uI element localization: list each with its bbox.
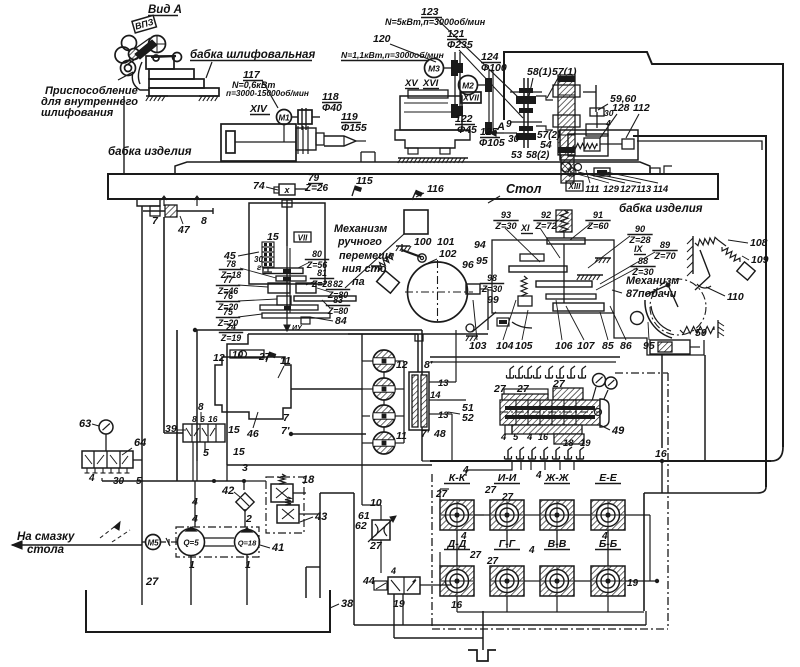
leader line to attachment <box>118 72 133 80</box>
leader to grinding head <box>206 62 212 78</box>
svg-text:100: 100 <box>414 236 432 248</box>
svg-text:4: 4 <box>460 531 467 542</box>
svg-text:М5: М5 <box>147 539 159 548</box>
svg-text:XI: XI <box>520 223 530 233</box>
valve T row above shaft <box>509 369 511 378</box>
crank arm <box>645 285 668 295</box>
block 128 112 housing <box>560 130 638 160</box>
spindle shaft I <box>523 78 525 148</box>
lube dashed arrows <box>100 524 118 538</box>
svg-text:27: 27 <box>145 576 159 588</box>
svg-text:9: 9 <box>506 119 512 130</box>
wire top attachment to table <box>123 96 125 174</box>
pipe y625 under grid <box>354 624 646 626</box>
cam big circle <box>408 262 468 322</box>
svg-text:127: 127 <box>620 184 637 195</box>
motor M3 <box>425 59 444 78</box>
svg-text:Z=70: Z=70 <box>653 251 676 261</box>
pendulum lever <box>402 250 421 257</box>
svg-text:4: 4 <box>526 432 533 443</box>
leader line from M1 down <box>283 125 285 142</box>
pump coupling shaft <box>204 537 234 539</box>
svg-text:48: 48 <box>433 428 446 440</box>
svg-text:96: 96 <box>462 259 474 271</box>
svg-text:30: 30 <box>508 134 520 145</box>
pawl mechanism below <box>472 312 496 332</box>
pipe to pump Q5 <box>194 481 196 527</box>
svg-text:52: 52 <box>462 412 474 424</box>
small parts under feed <box>497 318 509 326</box>
arrow down at stack bottom <box>286 318 288 330</box>
pipe x197 to tank zone <box>196 461 198 481</box>
svg-text:4: 4 <box>462 465 469 476</box>
svg-text:80: 80 <box>312 249 322 259</box>
mid pipes to shaft <box>361 361 363 443</box>
svg-text:2: 2 <box>245 513 252 525</box>
svg-text:41: 41 <box>271 542 284 554</box>
shaft 49 top blocks <box>504 389 548 395</box>
gear shaft vertical double <box>286 207 288 318</box>
svg-text:38: 38 <box>341 598 354 610</box>
pipe x422 down <box>421 330 423 461</box>
svg-text:XVI: XVI <box>422 78 439 89</box>
svg-text:7': 7' <box>421 429 430 440</box>
svg-text:77: 77 <box>223 275 234 285</box>
pump unit dash-dot box <box>176 527 259 557</box>
pipe E-E column right <box>649 515 651 581</box>
bottom fitting with flag <box>301 317 310 324</box>
svg-text:82: 82 <box>333 279 343 289</box>
top plate 91 <box>547 238 585 244</box>
svg-text:16: 16 <box>208 414 218 424</box>
svg-text:129: 129 <box>603 184 620 195</box>
vertical from 16 down <box>661 461 663 493</box>
spindle quill hatched <box>561 155 574 183</box>
svg-text:М3: М3 <box>428 64 440 74</box>
svg-text:Q=5: Q=5 <box>183 539 199 548</box>
pipes around 18 43 <box>244 480 266 482</box>
diamond 109 <box>737 262 755 280</box>
valve 64 spring feet <box>86 468 88 473</box>
gauge circles on stems <box>593 374 606 387</box>
frame inner right <box>633 136 766 487</box>
svg-text:8: 8 <box>201 215 207 227</box>
attachment belt dark wedge <box>135 40 157 59</box>
svg-text:N=5кВт,п=3000об/мин: N=5кВт,п=3000об/мин <box>385 17 486 27</box>
svg-text:бабка изделия: бабка изделия <box>108 146 192 158</box>
svg-text:85: 85 <box>602 340 614 352</box>
block 46 outline <box>215 357 291 419</box>
svg-text:16: 16 <box>655 448 667 460</box>
svg-text:64: 64 <box>134 437 146 449</box>
gear bar mid <box>260 305 318 310</box>
svg-text:27: 27 <box>258 352 271 363</box>
wheelhead slide body <box>400 96 462 130</box>
ratchet stack 45 <box>262 242 274 247</box>
svg-text:95: 95 <box>476 255 488 267</box>
leader 120 wire <box>390 44 436 62</box>
svg-text:Ф40: Ф40 <box>322 102 342 114</box>
frame outer bottom corner to pipe <box>527 447 783 461</box>
svg-text:4: 4 <box>601 531 608 542</box>
svg-text:7': 7' <box>281 425 290 437</box>
gear hubs <box>283 269 291 273</box>
section block Ж-Ж <box>540 500 574 530</box>
bracket on circle right <box>466 284 480 294</box>
svg-text:Ф105: Ф105 <box>479 137 505 149</box>
flag 115 <box>352 186 362 199</box>
spring 50 <box>680 327 714 334</box>
plate z72 <box>536 281 592 287</box>
svg-text:Механизм: Механизм <box>334 223 387 235</box>
svg-text:76: 76 <box>223 291 233 301</box>
svg-text:19: 19 <box>627 578 639 589</box>
hatch under plate right <box>577 274 603 276</box>
gear blocks H row left <box>268 283 290 293</box>
svg-text:86: 86 <box>620 340 632 352</box>
feed mechanism dashed box <box>492 240 614 313</box>
svg-text:62: 62 <box>355 520 367 532</box>
ground hatch under grinding head right foot <box>199 95 219 97</box>
svg-text:115: 115 <box>356 175 373 187</box>
svg-text:На смазку: На смазку <box>17 531 75 543</box>
belt M2 to spindle <box>478 84 486 86</box>
arrow A into spindle <box>504 132 517 134</box>
gear blocks H row right <box>296 283 316 293</box>
boxed label VII <box>294 232 311 242</box>
svg-text:105: 105 <box>515 340 533 352</box>
ratchet lever 110 <box>700 250 710 276</box>
svg-text:27: 27 <box>501 492 514 503</box>
svg-text:Z=72: Z=72 <box>534 221 557 231</box>
gear bar long right <box>294 296 356 301</box>
svg-text:1: 1 <box>189 559 195 571</box>
plate lower <box>546 294 596 299</box>
belt drive 118 <box>291 116 298 118</box>
lube arrow line <box>12 544 142 546</box>
spindle hatched column 57 <box>558 75 575 155</box>
svg-text:Вид А: Вид А <box>148 4 182 16</box>
distributor 8' hatched <box>409 372 429 430</box>
valve 18 square <box>271 484 293 502</box>
svg-text:И-И: И-И <box>498 472 517 484</box>
svg-text:93: 93 <box>501 210 511 220</box>
frame outer top <box>504 52 783 447</box>
gear cross links <box>536 96 553 100</box>
gear bar z56 <box>263 268 303 274</box>
pipe x227 bottom <box>226 465 228 481</box>
feed vertical shaft <box>563 244 565 303</box>
svg-text:Е-Е: Е-Е <box>599 472 618 484</box>
svg-text:х: х <box>283 185 290 195</box>
diamond damper <box>377 271 400 293</box>
svg-text:перемеще: перемеще <box>339 250 394 262</box>
pipe 7' to pilot circle 4 <box>291 433 366 435</box>
svg-text:42: 42 <box>221 485 234 497</box>
svg-text:18: 18 <box>563 438 574 449</box>
svg-text:83: 83 <box>333 295 343 305</box>
wire from 39 down <box>204 442 206 452</box>
svg-text:75: 75 <box>223 307 233 317</box>
motor M5 <box>142 541 146 543</box>
plate z30 left <box>509 266 567 272</box>
pipe filter to pump <box>244 509 246 527</box>
top fittings of 46 <box>230 350 264 358</box>
svg-text:95: 95 <box>643 340 655 352</box>
wire from motor M1 label <box>262 80 278 108</box>
grid pipes verticals <box>456 530 458 566</box>
bracket under table left <box>137 199 160 206</box>
svg-text:XVII: XVII <box>462 93 480 103</box>
svg-text:5: 5 <box>203 447 209 459</box>
svg-text:111: 111 <box>585 184 599 195</box>
valve 43 square <box>277 505 299 523</box>
svg-text:94: 94 <box>474 239 486 251</box>
svg-text:4: 4 <box>528 545 535 556</box>
svg-text:Ф155: Ф155 <box>341 122 367 134</box>
svg-text:8: 8 <box>198 402 204 413</box>
svg-text:XV: XV <box>404 78 418 89</box>
pipe vertical x197 down <box>196 330 198 461</box>
svg-text:106: 106 <box>555 340 573 352</box>
svg-text:53: 53 <box>511 150 523 161</box>
leaders bottom row <box>503 300 516 340</box>
svg-text:10: 10 <box>370 497 382 509</box>
crank circle <box>631 312 644 325</box>
sector gear <box>645 300 672 338</box>
svg-text:Z=30: Z=30 <box>494 221 517 231</box>
attachment swing arm <box>138 62 142 84</box>
svg-text:89: 89 <box>660 240 671 250</box>
workhead spindle box <box>221 124 296 161</box>
ratchet springs 108 109 <box>695 237 718 245</box>
svg-text:104: 104 <box>496 340 514 352</box>
upper platform on table <box>175 162 650 174</box>
live center arrow <box>324 136 356 146</box>
valves 18 43 dash-dot box <box>266 477 304 533</box>
droppers below shaft <box>520 460 522 470</box>
svg-text:27: 27 <box>484 485 497 496</box>
svg-text:50: 50 <box>695 327 707 339</box>
attachment link rod <box>151 56 176 57</box>
pipe y465 long <box>227 464 432 466</box>
svg-text:99: 99 <box>487 294 499 306</box>
pipe y461 horizontal <box>430 460 771 462</box>
spring inside 112 <box>573 143 597 148</box>
svg-text:шлифования: шлифования <box>41 107 114 119</box>
section block Д-Д <box>440 566 474 596</box>
pipes of 61 62 <box>380 505 382 520</box>
svg-text:3: 3 <box>242 462 248 474</box>
pressure gauge 63 <box>99 420 113 434</box>
svg-text:А: А <box>496 121 505 133</box>
svg-text:8: 8 <box>192 414 197 424</box>
svg-text:27: 27 <box>469 550 482 561</box>
svg-text:Ф45: Ф45 <box>457 124 477 136</box>
svg-text:113: 113 <box>636 184 652 195</box>
boxed label XIII <box>566 181 583 191</box>
svg-text:101: 101 <box>437 236 455 248</box>
tank inner pipe stubs <box>141 545 143 605</box>
arrows up from rod <box>163 197 165 206</box>
svg-text:128: 128 <box>612 102 630 114</box>
section block В-В <box>540 566 574 596</box>
motor M2 <box>459 76 478 95</box>
hydraulic cylinder 50 <box>650 340 690 354</box>
svg-text:14: 14 <box>430 390 441 401</box>
pipe from feed box down x705 <box>704 355 706 461</box>
svg-text:103: 103 <box>469 340 487 352</box>
svg-text:58(1): 58(1) <box>527 66 552 78</box>
tank outline <box>86 590 330 632</box>
throttle valve 61 62 <box>372 520 390 540</box>
dash-dot border bottom <box>432 628 668 630</box>
svg-text:16: 16 <box>538 432 549 442</box>
svg-text:Q=18: Q=18 <box>238 539 257 548</box>
svg-text:1: 1 <box>245 559 251 571</box>
svg-text:N=1,1кВт,п=3000об/мин: N=1,1кВт,п=3000об/мин <box>341 50 445 60</box>
grid top elbow from droppers <box>466 461 512 470</box>
svg-text:15: 15 <box>267 231 279 243</box>
wheelhead feet <box>408 148 418 154</box>
svg-text:па: па <box>352 276 365 288</box>
svg-text:12: 12 <box>213 352 225 364</box>
grid left pipe <box>439 552 441 566</box>
component 114 small box <box>594 168 610 176</box>
pipe y334 right segment <box>348 333 488 335</box>
valve block 64 <box>82 451 133 468</box>
svg-text:44: 44 <box>362 575 375 587</box>
label 16 bottom leader <box>456 596 458 603</box>
svg-text:81: 81 <box>317 268 327 278</box>
svg-text:Ж-Ж: Ж-Ж <box>545 472 570 484</box>
valve 44 19 <box>388 577 420 594</box>
svg-text:13: 13 <box>438 410 449 421</box>
svg-text:120: 120 <box>373 33 391 45</box>
section block Е-Е <box>591 500 625 530</box>
gear box left low <box>277 296 291 305</box>
svg-text:IX: IX <box>634 244 644 254</box>
svg-text:ручного: ручного <box>337 236 382 248</box>
svg-text:63: 63 <box>79 418 91 430</box>
motor M1 <box>277 110 292 125</box>
gear bottom plate <box>262 313 330 318</box>
svg-text:5: 5 <box>513 432 519 443</box>
svg-text:VII: VII <box>298 234 309 243</box>
svg-text:27: 27 <box>486 556 499 567</box>
flag ВПЗ plate <box>132 15 156 33</box>
table right end steps <box>650 168 660 174</box>
svg-text:г: г <box>257 263 262 272</box>
pipe rectangle mid <box>227 334 248 465</box>
svg-text:Ф100: Ф100 <box>481 62 507 74</box>
grinding head slide blocks <box>146 56 174 69</box>
svg-text:108: 108 <box>750 237 768 249</box>
pipe vertical x488 from circle bracket <box>487 289 489 330</box>
dash-dot border top right <box>615 372 668 374</box>
svg-text:Стол: Стол <box>506 182 542 196</box>
svg-text:бабка изделия: бабка изделия <box>619 203 703 215</box>
panel VII outline <box>249 203 325 284</box>
pipe net joints <box>212 479 216 483</box>
svg-text:74: 74 <box>253 180 265 192</box>
svg-text:4: 4 <box>88 473 95 484</box>
svg-text:ИУ: ИУ <box>292 325 303 332</box>
svg-text:114: 114 <box>653 184 669 195</box>
spindle parts 59 60 <box>583 91 596 93</box>
svg-text:XIII: XIII <box>567 182 581 191</box>
svg-text:27: 27 <box>435 489 448 500</box>
workhead spindle parts <box>296 128 316 150</box>
svg-text:Z=19: Z=19 <box>220 333 241 343</box>
leaders for 111..114 <box>586 170 590 183</box>
flag 116 <box>412 190 423 203</box>
grid pipes row1 <box>439 489 441 500</box>
anchor hatch 100 <box>396 245 410 247</box>
leaders feed mech <box>505 228 540 262</box>
leader from square to text <box>345 234 404 288</box>
svg-text:15: 15 <box>228 424 240 436</box>
svg-text:58(2): 58(2) <box>526 150 550 161</box>
dash-dot border left <box>431 474 433 629</box>
svg-text:57(2): 57(2) <box>537 130 561 141</box>
pump Q=18 <box>235 530 260 555</box>
svg-text:91: 91 <box>593 210 603 220</box>
section block Г-Г <box>490 566 524 596</box>
grid row2 stubs <box>524 580 540 582</box>
svg-text:стола: стола <box>27 544 65 556</box>
svg-text:18: 18 <box>302 474 315 486</box>
svg-text:102: 102 <box>439 248 457 260</box>
pilot circles connectors <box>383 372 385 378</box>
pipes right of distributor <box>437 381 456 383</box>
bottom plate <box>553 303 604 311</box>
shaft 49 right cap <box>600 399 609 427</box>
wire x177 down <box>176 330 178 481</box>
wire table to screw <box>286 199 288 246</box>
valve 128 small square <box>584 138 600 151</box>
small spring left <box>521 276 527 296</box>
pipe from 64 right <box>101 478 103 481</box>
pipe lines above shaft 49 <box>430 356 620 358</box>
belt M3 pulleys <box>444 67 452 69</box>
rod 47 with handwheel <box>143 210 213 212</box>
ground/tank symbol bottom center <box>482 611 484 650</box>
svg-text:4: 4 <box>500 432 507 443</box>
pipes of 44 19 <box>393 594 395 638</box>
svg-text:11: 11 <box>396 430 407 442</box>
feed box outline <box>614 313 704 355</box>
pipes between valve zone and grid <box>422 460 432 462</box>
svg-text:90: 90 <box>635 224 646 234</box>
svg-text:112: 112 <box>633 102 650 114</box>
leader 123 to pulley <box>436 18 521 100</box>
pump Q=5 <box>178 529 205 556</box>
suction pipes into tank <box>190 556 192 605</box>
frame inner bottom corner <box>644 487 766 493</box>
valve T row below shaft <box>507 450 509 459</box>
svg-text:4: 4 <box>390 566 396 576</box>
dash-dot border right <box>667 373 669 629</box>
svg-text:92: 92 <box>541 210 552 220</box>
boxed label XVII <box>461 92 481 103</box>
leader 121 to pulley <box>459 50 523 118</box>
svg-text:6: 6 <box>200 414 205 424</box>
svg-text:78: 78 <box>226 259 236 269</box>
svg-text:Z=26: Z=26 <box>304 183 329 194</box>
shaft 49 body <box>500 400 600 425</box>
wire x164 down <box>163 217 165 433</box>
